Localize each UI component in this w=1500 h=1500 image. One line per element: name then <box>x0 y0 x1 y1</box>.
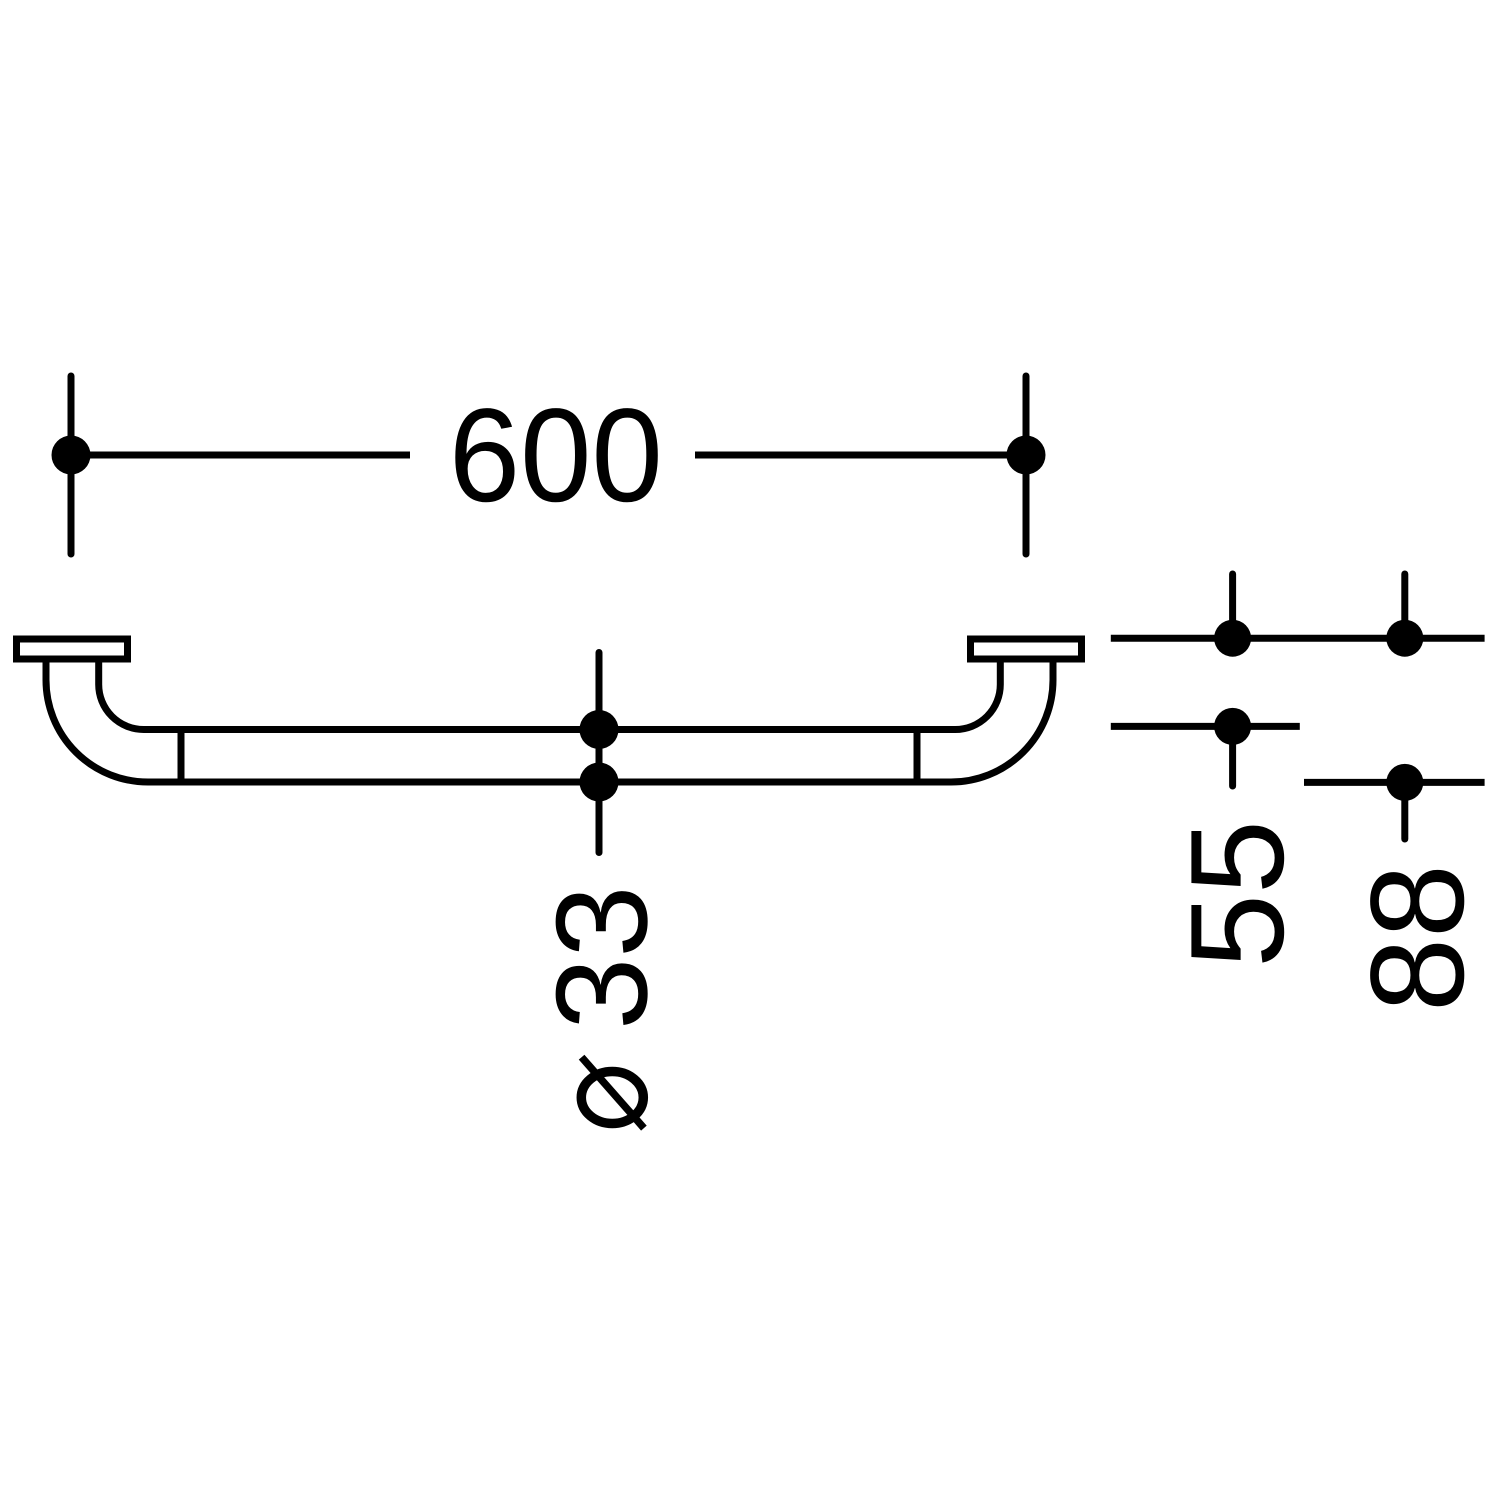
side view: dot on lower line <box>1386 764 1423 801</box>
side view: tick above dot 2 <box>1401 574 1408 638</box>
dimension Ø33: diameter symbol circle <box>581 1072 643 1124</box>
side view: middle level line (55) <box>1111 723 1300 730</box>
side view: lower level line (88) <box>1304 779 1485 786</box>
grab bar: left wall flange <box>17 639 128 659</box>
dimension 600: left dot <box>52 436 91 475</box>
dimension 600: left extension line <box>68 376 75 554</box>
svg-text:600: 600 <box>449 382 663 530</box>
grab bar: right sleeve junction line <box>914 726 921 786</box>
side view: dot 2 on top line <box>1386 620 1423 657</box>
dimension 600: right extension line <box>1023 376 1030 554</box>
side view: tick below lower dot <box>1401 782 1408 839</box>
side view: top level line (wall plate) <box>1111 635 1485 642</box>
dimension Ø33: upper dot <box>580 710 619 749</box>
side view: dot 1 on top line <box>1214 620 1251 657</box>
dimension Ø33: lower dot <box>580 763 619 802</box>
dimension 600: right dot <box>1007 436 1046 475</box>
dimension Ø33: diameter symbol slash <box>582 1057 644 1128</box>
side view: tick above dot 1 <box>1229 574 1236 638</box>
grab bar: left sleeve junction line <box>178 726 185 786</box>
grab bar: inner tube outline <box>99 659 1001 730</box>
dimension Ø33: vertical line <box>596 653 603 853</box>
side view: tick below middle dot <box>1229 726 1236 786</box>
svg-text:33: 33 <box>528 885 674 1030</box>
dimension 600: left dimension line <box>71 452 410 459</box>
grab bar: right wall flange <box>971 639 1082 659</box>
svg-text:55: 55 <box>1164 820 1312 968</box>
grab bar: outer tube outline <box>46 659 1053 782</box>
dimension 600: right dimension line <box>695 452 1026 459</box>
side view: dot on middle line <box>1214 708 1251 745</box>
svg-text:88: 88 <box>1344 864 1492 1012</box>
